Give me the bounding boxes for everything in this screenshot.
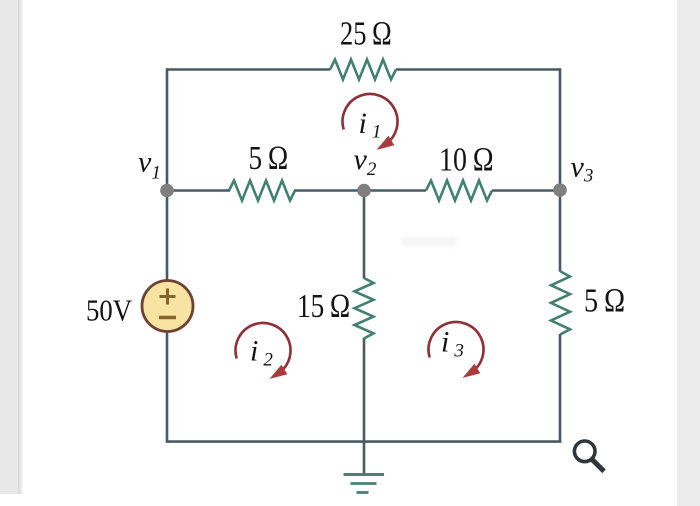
svg-text:5 Ω: 5 Ω xyxy=(249,140,289,177)
wire v2 to 10-ohm xyxy=(364,189,426,192)
svg-text:v3: v3 xyxy=(571,151,594,187)
wire top-right segment xyxy=(396,68,560,71)
node v3 xyxy=(553,183,567,197)
wire 5-ohm to v2 xyxy=(294,189,364,192)
wire bottom segment xyxy=(166,440,562,443)
svg-text:10 Ω: 10 Ω xyxy=(439,142,494,179)
svg-text:v1: v1 xyxy=(138,146,161,184)
svg-text:v2: v2 xyxy=(354,143,377,180)
svg-text:5 Ω: 5 Ω xyxy=(584,283,626,320)
wire top-left segment xyxy=(167,68,330,71)
resistor 5-ohm (right vertical) xyxy=(551,272,570,335)
resistor 15-ohm (center vertical) xyxy=(355,278,374,338)
svg-text:50V: 50V xyxy=(86,293,133,328)
svg-text:15 Ω: 15 Ω xyxy=(297,288,351,325)
node v1 xyxy=(160,184,174,198)
wire 15-ohm to ground xyxy=(363,338,366,473)
svg-text:i3: i3 xyxy=(441,326,464,362)
left strip shadow edge xyxy=(18,0,23,494)
node v2 xyxy=(357,184,371,198)
wire middle vertical v2 to 15-ohm xyxy=(363,191,366,279)
left gray margin strip xyxy=(0,0,18,494)
svg-text:25 Ω: 25 Ω xyxy=(340,16,392,53)
wire right vertical upper (v3 to 5-ohm) xyxy=(559,68,562,272)
wire 10-ohm to v3 xyxy=(492,189,560,192)
mesh current arrow i1 xyxy=(343,94,398,150)
resistor 25-ohm (top) xyxy=(330,60,396,80)
mesh current arrow i3 xyxy=(429,322,484,378)
mesh current arrow i2 xyxy=(236,323,291,379)
wire right vertical lower xyxy=(559,334,562,442)
right gray margin strip xyxy=(677,0,700,506)
svg-text:i1: i1 xyxy=(359,107,382,143)
voltage source 50V xyxy=(142,281,193,332)
magnifier icon xyxy=(574,441,604,471)
wire middle v1 to 5-ohm xyxy=(167,189,230,192)
wire left vertical (v1 branch with source) xyxy=(166,68,169,442)
svg-text:i2: i2 xyxy=(250,335,273,371)
resistor 5-ohm (left middle) xyxy=(229,181,295,201)
ground symbol xyxy=(344,475,385,493)
resistor 10-ohm (right middle) xyxy=(426,181,492,201)
